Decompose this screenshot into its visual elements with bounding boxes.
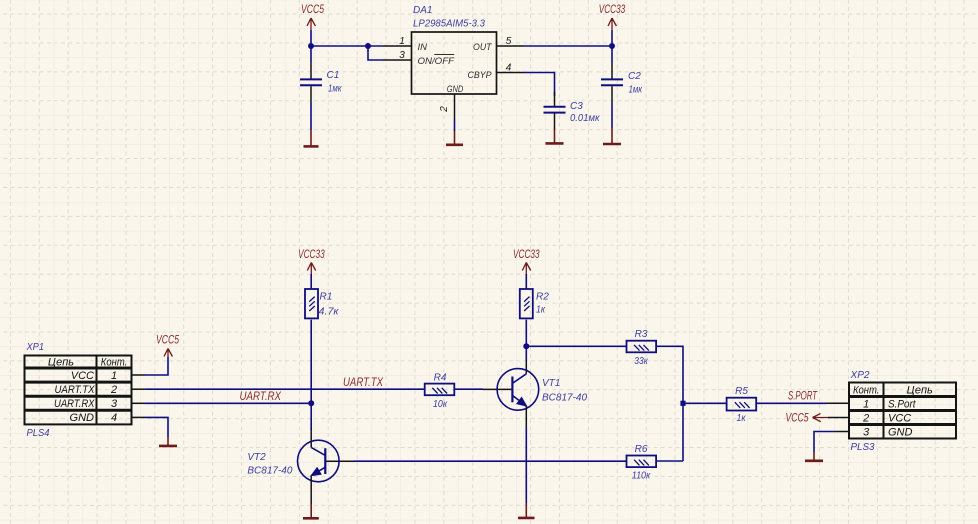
wire R6 to VT2 base [354, 460, 627, 462]
wire VCC33 to R1 [310, 274, 312, 288]
svg-text:VCC: VCC [888, 413, 911, 425]
power VCC33 above R1 [298, 249, 325, 274]
resistor R5 [727, 386, 757, 424]
pin stub XP1-3 [132, 402, 146, 404]
pin stub XP2-2 [828, 417, 849, 419]
wire branch to pin 3 [368, 46, 383, 60]
svg-text:C3: C3 [570, 101, 583, 112]
ground under C1 [304, 130, 319, 146]
svg-text:R4: R4 [434, 373, 447, 384]
ground under DA1 [446, 131, 463, 145]
svg-text:110к: 110к [632, 471, 652, 482]
node junction R2/R3/VT1 [523, 343, 529, 349]
wire R4 to VT1 base [454, 388, 484, 390]
svg-text:1: 1 [399, 36, 405, 47]
svg-text:PLS3: PLS3 [851, 442, 875, 453]
wire XP2-3 to ground [814, 432, 835, 453]
svg-text:GND: GND [70, 412, 95, 424]
wire junction to R3 [526, 345, 627, 347]
svg-text:10к: 10к [433, 399, 448, 410]
svg-text:C2: C2 [628, 71, 641, 82]
wire net UART.TX [145, 388, 426, 390]
ground under C3 [546, 129, 564, 143]
svg-text:R1: R1 [320, 292, 333, 303]
resistor R4 [425, 373, 455, 411]
svg-text:ON/OFF: ON/OFF [418, 56, 456, 67]
power VCC5 arrow at XP2-2 [786, 412, 829, 424]
wire pin2 to ground [454, 120, 456, 131]
resistor R2 [520, 289, 549, 318]
power VCC33 above R2 [513, 249, 540, 274]
wire VCC33 to junction [611, 30, 613, 46]
wire XP1-1 to VCC5 [145, 357, 168, 375]
ground under XP2 [805, 452, 823, 461]
pin stub VT2 collector [310, 429, 312, 447]
transistor VT1 BC817-40 [497, 369, 587, 411]
svg-text:VCC33: VCC33 [298, 249, 325, 261]
wire VT2 emitter to ground [310, 503, 312, 505]
resistor R3 [627, 329, 657, 367]
power VCC33 top-right [599, 4, 626, 30]
svg-text:R5: R5 [735, 386, 748, 397]
wire bus to R5 [686, 402, 727, 404]
wire junction down to VT1 collector [525, 346, 527, 360]
svg-text:4: 4 [111, 412, 117, 424]
svg-text:GND: GND [888, 427, 913, 439]
wire bus to R6 [656, 460, 683, 462]
svg-text:5: 5 [506, 36, 512, 47]
pin stub VT1 emitter [525, 406, 527, 428]
pin 5 stub [497, 45, 525, 47]
transistor VT2 BC817-40 (mirrored) [247, 440, 339, 482]
connector XP1 table [25, 342, 132, 439]
svg-text:UART.TX: UART.TX [55, 384, 96, 396]
svg-text:R6: R6 [635, 444, 648, 455]
svg-text:VCC: VCC [71, 370, 94, 382]
svg-text:1: 1 [863, 399, 869, 411]
svg-text:3: 3 [863, 427, 870, 439]
pin stub VT1 collector [525, 360, 527, 374]
node junction right bus / R5 [680, 401, 685, 406]
ground under C2 [603, 128, 621, 144]
wire XP1-4 to ground [145, 417, 168, 437]
power VCC5 top-left [301, 4, 324, 30]
svg-text:3: 3 [111, 398, 118, 410]
svg-text:0.01мк: 0.01мк [570, 113, 601, 124]
svg-text:VCC33: VCC33 [599, 4, 626, 16]
svg-text:4.7к: 4.7к [319, 307, 340, 318]
svg-text:Цепь: Цепь [48, 356, 74, 368]
svg-text:UART.TX: UART.TX [343, 377, 384, 389]
pin stub XP2-1 [826, 402, 849, 404]
wire top rail to pin1 [311, 45, 383, 47]
power VCC5 at XP1 [156, 335, 179, 358]
node junction R1/UART.RX/VT2 [308, 400, 314, 406]
node junction at C1 top [308, 43, 314, 49]
svg-text:BC817-40: BC817-40 [542, 393, 587, 404]
connector XP2 table [849, 370, 956, 453]
pin stub VT2 emitter [310, 476, 312, 505]
wire net S.PORT [756, 402, 826, 404]
wire net UART.RX [145, 402, 311, 404]
node junction at pin1 branch [365, 43, 371, 49]
wire VT1 emitter to ground [525, 428, 527, 503]
svg-text:S.Port: S.Port [888, 399, 916, 411]
svg-text:UART.RX: UART.RX [240, 391, 283, 403]
svg-text:R3: R3 [635, 329, 648, 340]
svg-text:Конт.: Конт. [101, 356, 128, 368]
pin stub XP1-2 [132, 388, 146, 390]
svg-text:GND: GND [447, 84, 464, 95]
pin 1 stub [383, 45, 412, 47]
svg-text:PLS4: PLS4 [27, 428, 50, 439]
svg-text:2: 2 [862, 413, 869, 425]
svg-text:VCC5: VCC5 [786, 412, 809, 424]
svg-text:XP1: XP1 [26, 342, 44, 353]
svg-text:VT1: VT1 [542, 378, 560, 389]
capacitor C3 [544, 92, 601, 129]
svg-text:Конт.: Конт. [853, 385, 880, 397]
svg-text:XP2: XP2 [849, 370, 869, 381]
svg-text:IN: IN [418, 42, 428, 53]
svg-text:C1: C1 [327, 70, 340, 81]
svg-text:4: 4 [506, 63, 512, 74]
svg-text:VCC5: VCC5 [156, 335, 179, 347]
svg-text:2: 2 [439, 106, 450, 113]
wire R2 to collector junction [525, 320, 527, 347]
svg-text:1мк: 1мк [328, 84, 343, 95]
svg-text:2: 2 [110, 384, 117, 396]
svg-text:DA1: DA1 [413, 5, 432, 16]
svg-text:33к: 33к [634, 356, 649, 367]
resistor R1 [305, 289, 340, 318]
pin 4 stub [497, 72, 525, 74]
svg-text:VCC33: VCC33 [513, 249, 540, 261]
pin 3 stub [383, 59, 412, 61]
ground under VT2 [303, 504, 319, 518]
svg-text:1к: 1к [737, 413, 747, 424]
svg-text:1: 1 [111, 370, 117, 382]
svg-text:OUT: OUT [473, 42, 493, 53]
svg-text:1к: 1к [536, 305, 546, 316]
capacitor C2 [601, 46, 643, 128]
wire OUT to VCC33 junction [524, 45, 612, 47]
wire CBYP to C3 [524, 73, 555, 97]
wire R3 to right bus [656, 346, 683, 461]
svg-text:R2: R2 [536, 292, 549, 303]
wire VCC33 to R2 [525, 274, 527, 288]
resistor R6 [627, 444, 657, 482]
svg-text:VT2: VT2 [247, 452, 266, 463]
capacitor C1 [300, 46, 343, 130]
svg-text:S.PORT: S.PORT [788, 391, 818, 403]
wire R1 down across UART.TX to UART.RX junction and on to VT2 [310, 320, 312, 430]
pin stub XP1-4 [132, 416, 146, 418]
pin stub VT1 base [483, 388, 512, 390]
pin stub VT2 base [325, 460, 354, 462]
svg-text:VCC5: VCC5 [301, 4, 324, 16]
node junction at C2 top [609, 43, 615, 49]
svg-text:BC817-40: BC817-40 [247, 466, 292, 477]
IC DA1 LP2985AIM5-3.3 voltage regulator [412, 5, 497, 95]
ground under XP1 [159, 437, 177, 446]
svg-text:Цепь: Цепь [907, 385, 933, 397]
pin stub XP2-3 [835, 431, 849, 433]
svg-text:CBYP: CBYP [468, 70, 493, 81]
svg-text:LP2985AIM5-3.3: LP2985AIM5-3.3 [413, 19, 485, 30]
svg-text:UART.RX: UART.RX [54, 398, 95, 410]
pin 2 stub [454, 94, 456, 120]
svg-text:1мк: 1мк [629, 85, 644, 96]
pin stub XP1-1 [132, 374, 146, 376]
svg-text:3: 3 [399, 50, 405, 61]
ground under VT1 [518, 503, 535, 518]
wire VCC5 to junction [310, 30, 312, 46]
